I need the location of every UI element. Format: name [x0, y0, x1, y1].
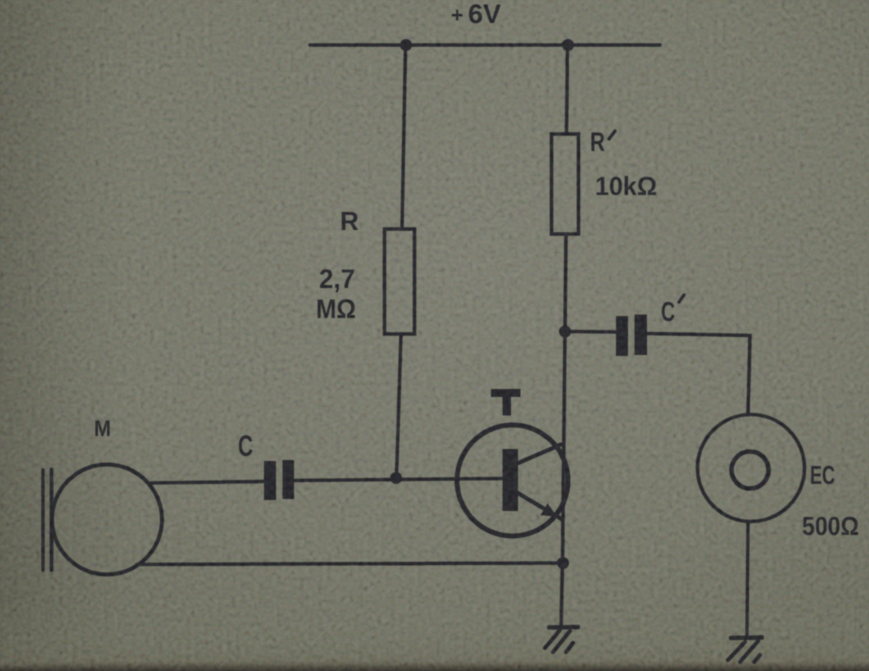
resistor R' body: [552, 134, 579, 234]
ground under transistor: [549, 625, 578, 630]
wire R to base node: [397, 334, 402, 477]
capacitor C' left plate: [616, 316, 628, 356]
earphone EC inner circle: [732, 452, 769, 489]
transistor T circle: [457, 425, 568, 536]
emitter arrowhead: [541, 503, 557, 516]
wire C to transistor base: [294, 479, 502, 481]
wire EC to ground: [747, 522, 748, 636]
capacitor C left plate: [264, 461, 276, 500]
transistor emitter lead: [516, 492, 562, 519]
wire collector node to capacitor C': [570, 330, 616, 334]
node collector junction: [559, 326, 571, 338]
node base junction: [390, 472, 402, 484]
microphone M plates: [41, 470, 44, 570]
node on rail left: [400, 39, 412, 51]
wire mic bottom to emitter node: [137, 563, 563, 565]
ground under earphone: [731, 635, 762, 640]
transistor base bar: [503, 449, 519, 511]
microphone M circle: [52, 465, 162, 575]
capacitor C' right plate: [635, 315, 648, 356]
wire mic to capacitor C: [151, 482, 264, 484]
wire rail to resistor R: [402, 45, 406, 229]
transistor collector lead: [516, 445, 561, 465]
resistor R body: [385, 229, 415, 334]
wire rail to resistor R': [567, 45, 568, 134]
+6V supply rail: [310, 43, 660, 46]
capacitor C right plate: [283, 460, 295, 499]
node on rail right: [562, 39, 574, 51]
label T drawn bold: [491, 389, 521, 397]
wire R' down collector to emitter node and ground stem: [561, 234, 566, 628]
node emitter junction: [557, 557, 569, 569]
wire C' to earphone corner: [647, 334, 750, 415]
earphone EC outer circle: [698, 415, 805, 522]
